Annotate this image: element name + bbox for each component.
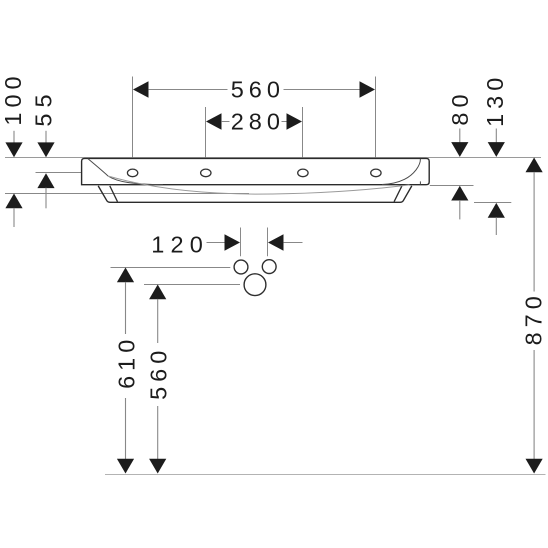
svg-text:870: 870 (521, 291, 547, 345)
svg-text:130: 130 (482, 73, 508, 127)
svg-text:560: 560 (145, 346, 171, 400)
svg-text:120: 120 (151, 232, 209, 258)
svg-text:280: 280 (231, 108, 285, 134)
svg-text:55: 55 (31, 88, 57, 126)
svg-text:560: 560 (231, 76, 285, 102)
svg-text:80: 80 (447, 89, 473, 125)
svg-text:610: 610 (113, 335, 139, 389)
svg-text:100: 100 (0, 71, 26, 125)
